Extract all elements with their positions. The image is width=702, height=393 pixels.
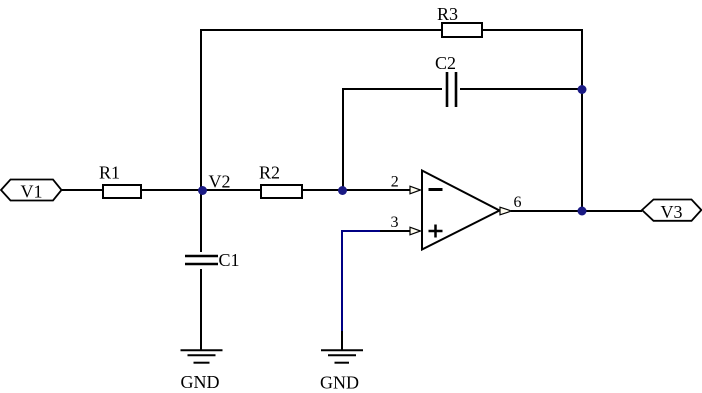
svg-text:C1: C1 <box>219 250 240 270</box>
svg-text:GND: GND <box>181 372 220 392</box>
svg-text:C2: C2 <box>435 53 456 73</box>
pin 2 arrow <box>410 186 421 194</box>
wire ground stub right <box>341 331 343 350</box>
wire C1 to ground <box>200 269 202 350</box>
wire top R3 branch <box>200 29 583 31</box>
capacitor C2 <box>447 72 456 107</box>
svg-text:3: 3 <box>391 214 399 231</box>
wire pin 3 stub <box>380 230 410 232</box>
junction node V2 <box>198 186 207 195</box>
op-amp U1 <box>422 171 500 250</box>
op-amp minus sign <box>429 188 443 191</box>
svg-text:V1: V1 <box>21 182 43 202</box>
pin 3 arrow <box>410 227 421 235</box>
wire C2 branch down to pin 2 node <box>342 88 344 190</box>
wire node V2 down to C1 <box>200 190 202 252</box>
wire output to V3 <box>511 210 642 212</box>
pin 6 output arrow <box>500 207 512 215</box>
resistor R3 <box>442 23 482 37</box>
junction node output <box>578 207 587 216</box>
wire C2 left <box>343 88 442 90</box>
wire R1 to node V2 to R2 <box>140 189 262 191</box>
svg-text:R2: R2 <box>259 163 280 183</box>
port V1 <box>1 180 62 201</box>
resistor R1 <box>103 185 141 198</box>
op-amp plus sign <box>429 225 443 238</box>
ground symbol left <box>181 350 223 362</box>
svg-text:6: 6 <box>514 194 522 211</box>
port V3 <box>642 200 701 221</box>
capacitor C1 <box>185 256 218 264</box>
svg-text:V2: V2 <box>209 172 231 192</box>
svg-text:V3: V3 <box>661 202 683 222</box>
junction node C2/R3 <box>578 85 587 94</box>
wire node V2 up to R3 branch <box>200 29 202 190</box>
wire right vertical from R3 to output node <box>581 29 583 212</box>
wire blue pin 3 horizontal <box>341 230 381 232</box>
wire C2 right <box>460 88 582 90</box>
wire V1 to R1 <box>62 189 104 191</box>
svg-text:2: 2 <box>391 174 399 191</box>
wire blue pin 3 vertical down <box>341 230 343 332</box>
resistor R2 <box>261 185 302 198</box>
wire R2 to op-amp pin 2 <box>302 189 410 191</box>
svg-text:R3: R3 <box>437 4 458 24</box>
svg-text:GND: GND <box>320 373 359 393</box>
junction node pin 2 <box>338 186 347 195</box>
svg-text:R1: R1 <box>99 163 120 183</box>
ground symbol right <box>321 350 363 362</box>
